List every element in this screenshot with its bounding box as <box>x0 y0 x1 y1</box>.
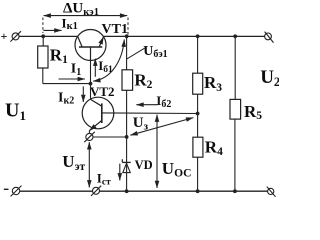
node R5 tap <box>233 34 237 38</box>
resistor R2 <box>122 36 133 137</box>
wire emitter node to VD <box>93 136 127 138</box>
dimension arrow delta U_кэ1 <box>44 15 128 17</box>
node VD junction <box>125 135 129 139</box>
node R4 bottom <box>196 189 200 193</box>
wire bottom rail <box>20 190 268 192</box>
minus sign <box>4 188 9 190</box>
resistor R4 <box>193 114 203 192</box>
node R2 tap <box>125 34 129 38</box>
contact point VT2 emitter <box>84 131 94 143</box>
svg-text:+: + <box>1 29 8 43</box>
node R5 bottom <box>233 189 237 193</box>
node VD bottom <box>125 189 129 193</box>
svg-text:VT2: VT2 <box>90 84 115 99</box>
resistor R1 <box>38 36 91 83</box>
contact point bottom rail <box>91 186 101 196</box>
curved arrow U_бэ1 <box>93 40 124 82</box>
output terminal bottom-right <box>267 187 276 197</box>
wire VT1 base to VT2 collector <box>90 60 92 99</box>
label delta U_кэ1 <box>63 1 99 19</box>
input terminal bottom-left <box>11 186 22 197</box>
leader line U_бэ1 <box>127 48 145 59</box>
arrow U_ос <box>156 115 158 188</box>
double arrow U_з <box>130 118 193 136</box>
output terminal top-right <box>265 32 274 43</box>
arrow I_к2 <box>82 86 84 102</box>
wire top rail left <box>19 35 78 37</box>
arrow I_б1 <box>94 59 96 77</box>
transistor VT1 <box>75 30 106 61</box>
resistor R3 <box>193 36 203 113</box>
arrow I_ст <box>119 164 121 181</box>
svg-text:VD: VD <box>135 158 153 172</box>
input terminal top-left <box>10 31 21 41</box>
wire VT2 base to divider <box>102 112 198 115</box>
arrow I_к1 <box>43 29 61 31</box>
wire top rail right <box>103 35 264 37</box>
arrow I_1 <box>59 78 85 80</box>
double arrow U_эт <box>88 142 90 187</box>
zener diode VD <box>122 137 130 191</box>
resistor R5 <box>230 36 241 191</box>
transistor VT2 <box>82 97 114 130</box>
node R1 tap <box>41 34 45 38</box>
node R3 tap <box>196 34 200 38</box>
svg-text:VT1: VT1 <box>102 22 128 37</box>
arrow I_б2 <box>136 104 157 106</box>
dashed tick right <box>127 18 129 35</box>
node VT1 base junction <box>89 82 93 86</box>
node divider R3 R4 <box>196 112 200 116</box>
dashed tick left <box>42 18 44 34</box>
